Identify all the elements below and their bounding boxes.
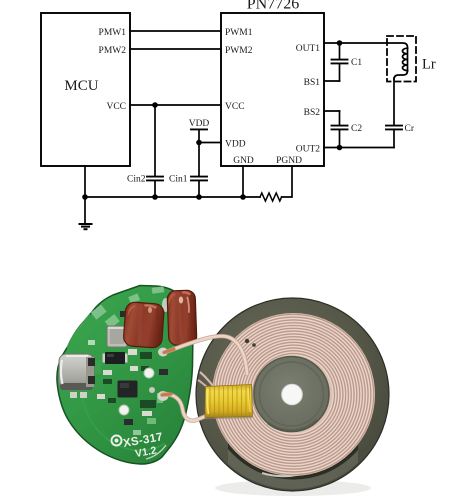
capacitor Cin2 <box>147 105 163 197</box>
photo: PCB light pads group top-left <box>91 286 165 328</box>
junction dot Cin1 rail <box>196 194 202 200</box>
photo: winding annulus <box>212 313 375 476</box>
photo: coil center hole <box>282 384 303 405</box>
wire OUT2 net <box>324 147 394 149</box>
svg-text:Lr: Lr <box>422 56 436 72</box>
svg-text:PMW1: PMW1 <box>99 28 127 38</box>
svg-text:BS1: BS1 <box>304 78 321 88</box>
MCU U1 box <box>41 13 130 166</box>
photo: PCB inner trace ring <box>81 332 165 451</box>
svg-text:VDD: VDD <box>189 119 210 129</box>
photo: mounting hole 1 <box>144 368 154 378</box>
photo: USB-C connector <box>59 354 95 390</box>
wire BS1 stub <box>324 80 340 82</box>
photo: silkscreen XS-317 <box>112 431 167 462</box>
photo: main QFN IC <box>118 381 138 398</box>
photo: crossing strands above tape <box>200 372 213 386</box>
photo: coil center ferrite disc <box>254 357 329 432</box>
svg-text:PWM2: PWM2 <box>225 46 253 56</box>
photo: yellow tape on coil <box>205 385 253 419</box>
ground symbol <box>79 224 93 229</box>
photo: coil outer ferrite disc rim <box>196 298 389 491</box>
wire PGND pin drop <box>282 166 292 197</box>
wire VDD to pin <box>199 142 221 144</box>
junction dot ground rail left <box>82 194 88 200</box>
photo: PCB green board <box>57 286 193 465</box>
junction dot OUT2 <box>337 145 343 151</box>
svg-text:BS2: BS2 <box>304 108 321 118</box>
photo: coil lead wire 2 <box>164 394 206 421</box>
photo: silver shielded inductor <box>107 326 127 347</box>
resistor R1 between GND and PGND <box>260 193 282 201</box>
junction dot VCC/Cin2 <box>152 102 158 108</box>
svg-text:PWM1: PWM1 <box>225 28 253 38</box>
VDD supply symbol <box>191 129 207 176</box>
junction dot Cin2 rail <box>152 194 158 200</box>
photo: wire entry dots on rim <box>245 339 249 343</box>
svg-text:VDD: VDD <box>225 140 246 150</box>
wire BS2 stub <box>324 110 340 112</box>
photo: PCB edge highlight <box>67 314 90 348</box>
photo: small SOP8 IC <box>105 352 125 364</box>
wire ground rail <box>85 196 260 198</box>
photo: PCB edge silk line bottom-right <box>146 445 166 459</box>
wire PMW1 to PWM1 <box>130 30 221 32</box>
capacitor C1 <box>332 43 348 81</box>
junction dot GND rail <box>240 194 246 200</box>
photo: electrolytic capacitor CE1 <box>123 302 164 349</box>
svg-text:VCC: VCC <box>225 102 245 112</box>
svg-text:OUT1: OUT1 <box>296 44 321 54</box>
svg-text:PMW2: PMW2 <box>99 46 127 56</box>
photo: solder pad between caps <box>162 298 169 312</box>
svg-text:GND: GND <box>233 156 254 166</box>
svg-text:C2: C2 <box>351 124 362 134</box>
junction dot OUT1 <box>337 40 343 46</box>
photo: mounting hole 2 <box>119 405 129 415</box>
wire PMW2 to PWM2 <box>130 48 221 50</box>
svg-text:MCU: MCU <box>64 78 98 94</box>
Lr dashed box <box>387 36 416 82</box>
wire VCC net <box>130 104 221 106</box>
wire MCU ground drop <box>84 166 86 224</box>
photo: solder blob pads <box>158 348 168 357</box>
photo: passives cluster <box>70 305 168 435</box>
photo: coil lead wire 1 <box>166 336 247 374</box>
wire Lr to Cr <box>393 78 395 125</box>
capacitor Cr <box>386 126 402 148</box>
photo: electrolytic capacitor CE2 <box>167 290 197 345</box>
svg-text:Cr: Cr <box>405 124 415 134</box>
capacitor C2 <box>332 111 348 148</box>
svg-text:PN7726: PN7726 <box>247 0 299 13</box>
svg-text:Cin1: Cin1 <box>169 175 188 185</box>
svg-text:VCC: VCC <box>106 102 126 112</box>
svg-text:Cin2: Cin2 <box>127 175 146 185</box>
photo: coil shadow <box>215 480 371 496</box>
wire GND pin drop <box>242 166 244 197</box>
svg-text:PGND: PGND <box>276 156 302 166</box>
photo: winding groove texture <box>213 314 373 474</box>
photo: cap glints <box>179 297 183 304</box>
IC U2 PN7726 box <box>221 13 324 166</box>
svg-text:OUT2: OUT2 <box>296 144 321 154</box>
svg-text:C1: C1 <box>351 58 362 68</box>
junction dot VDD <box>196 140 202 146</box>
wire OUT1 net <box>324 43 408 48</box>
capacitor Cin1 <box>191 177 207 197</box>
inductor Lr coil <box>403 48 408 70</box>
